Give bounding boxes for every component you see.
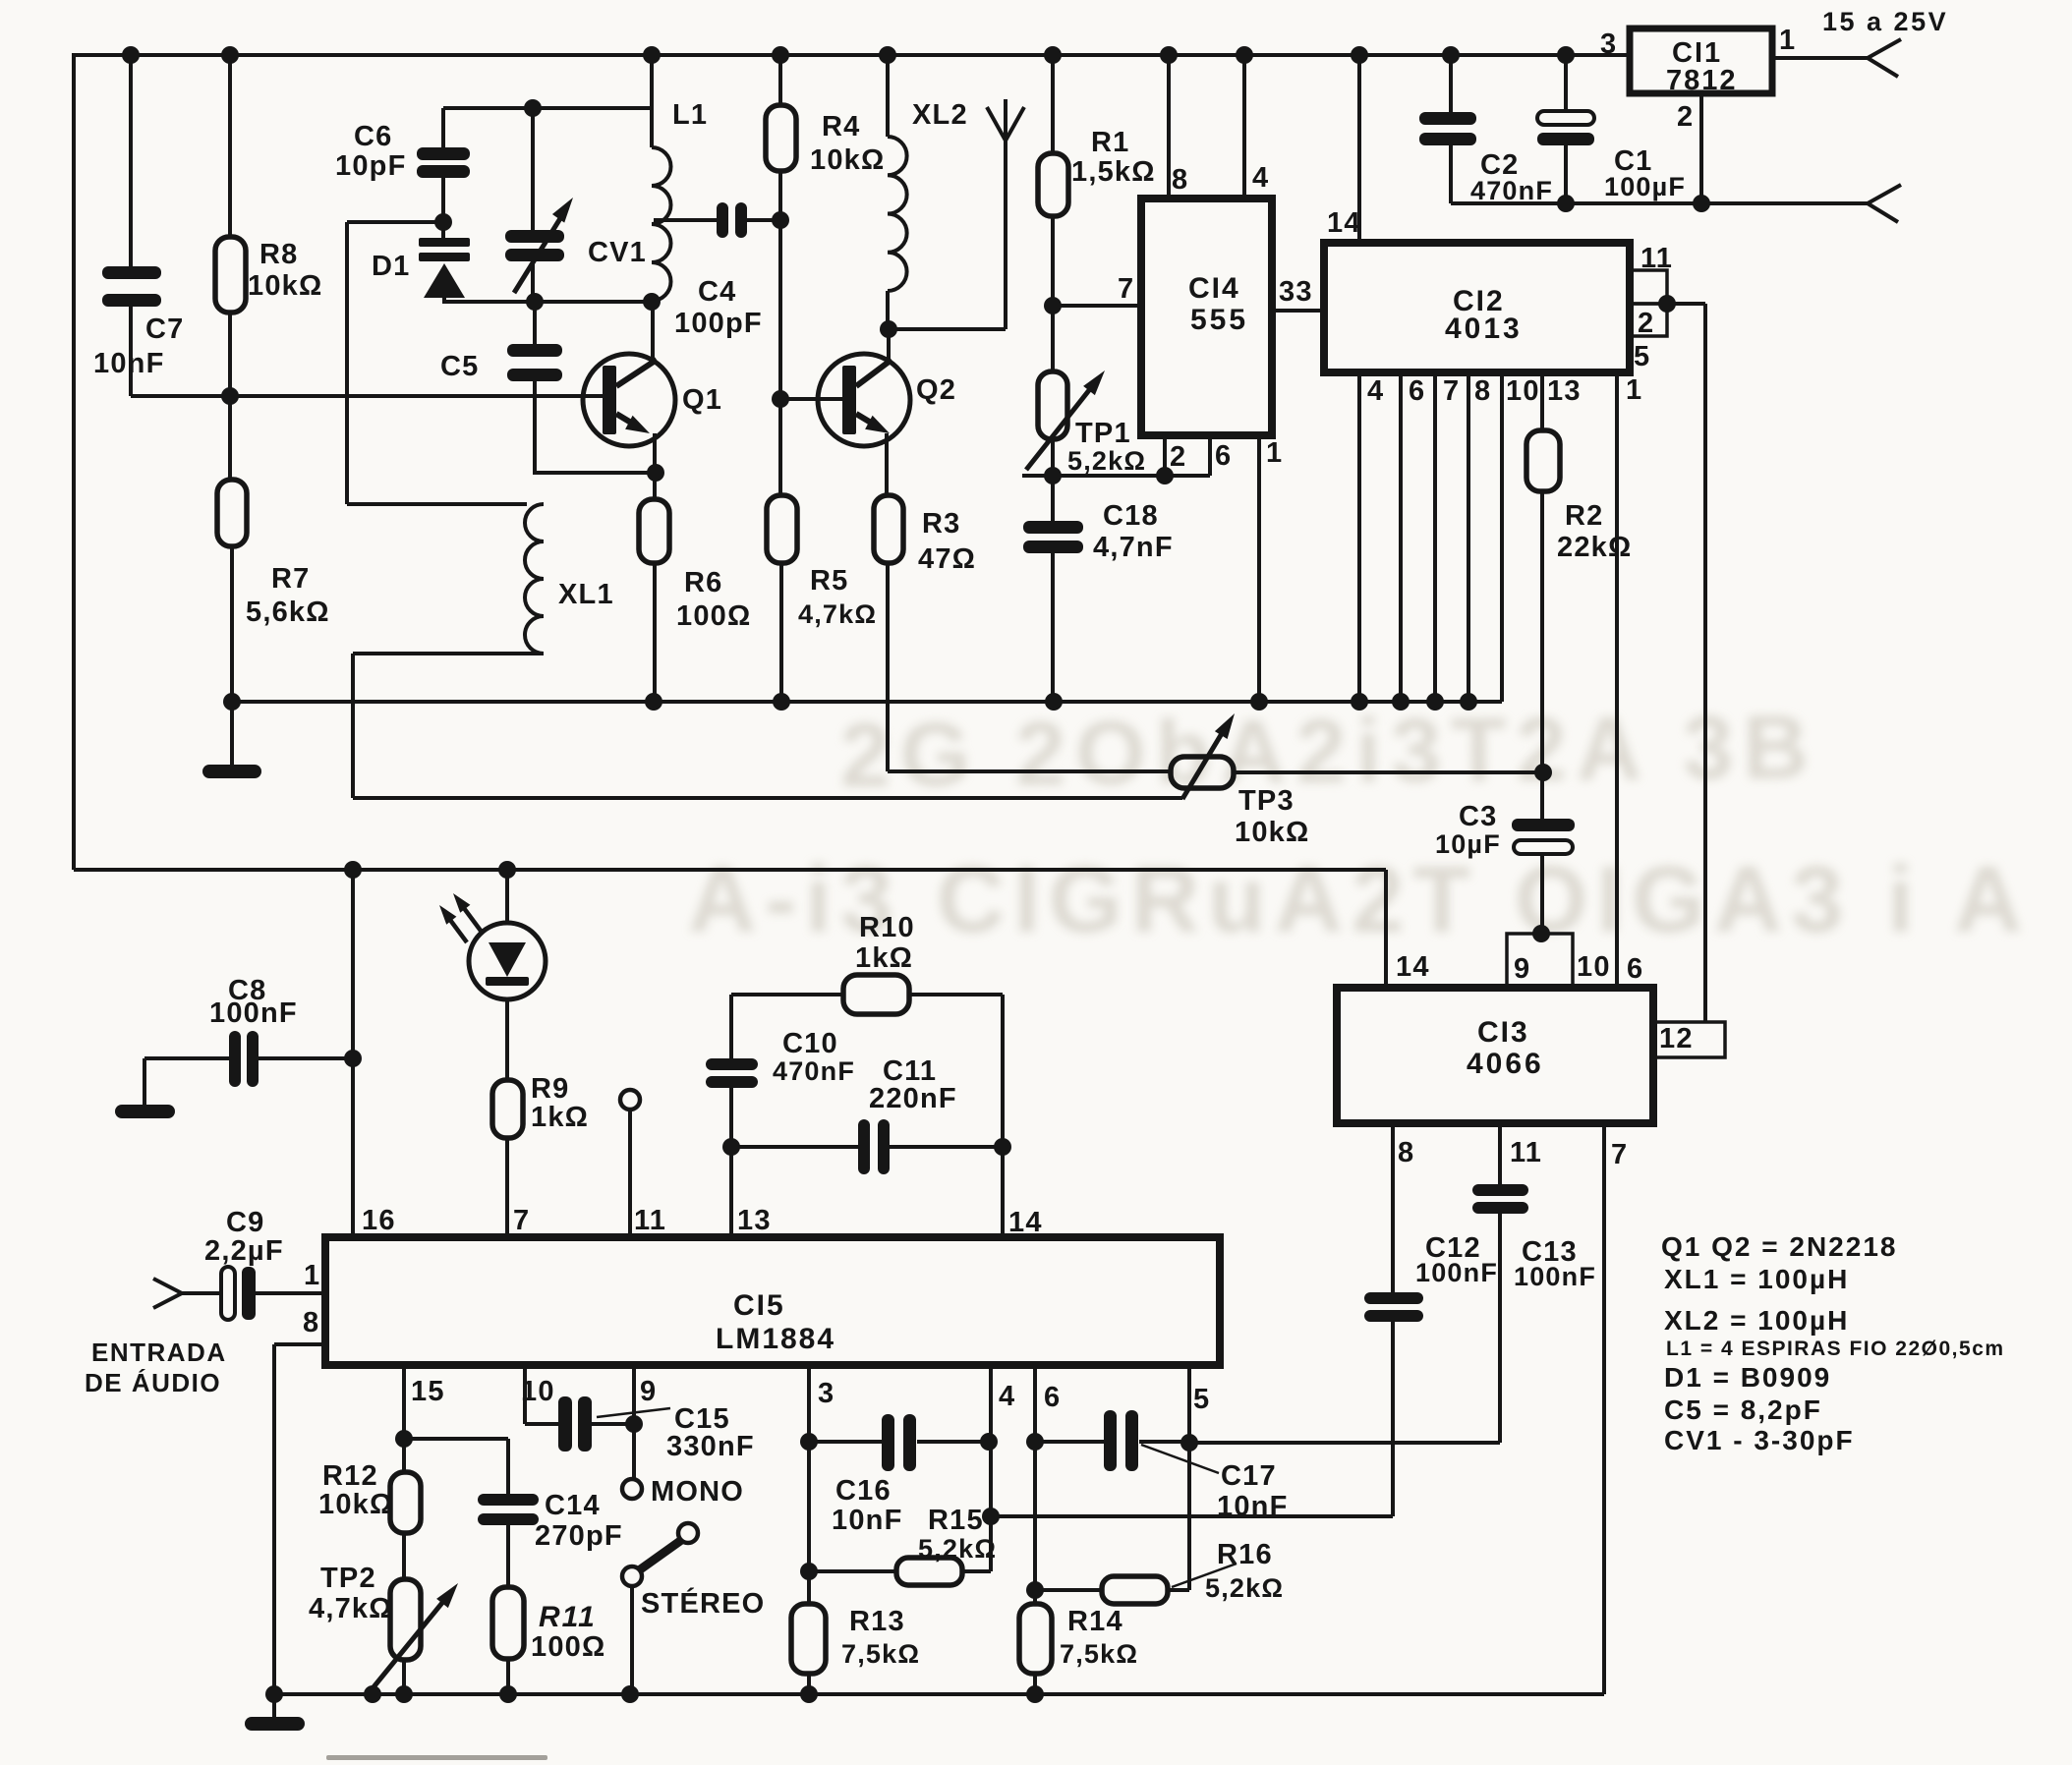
svg-text:R6: R6 [684,567,722,598]
svg-text:6: 6 [1215,440,1232,472]
svg-text:TP1: TP1 [1075,418,1131,449]
svg-text:5,2kΩ: 5,2kΩ [918,1534,997,1564]
svg-text:7: 7 [1443,375,1460,407]
svg-text:15 a 25V: 15 a 25V [1822,7,1948,36]
svg-text:R5: R5 [810,565,848,597]
svg-text:8: 8 [1398,1137,1414,1168]
svg-text:6: 6 [1044,1382,1061,1413]
svg-text:LM1884: LM1884 [716,1323,835,1355]
svg-text:10: 10 [1577,951,1611,983]
svg-text:100pF: 100pF [674,308,763,339]
svg-text:TP3: TP3 [1238,785,1295,817]
svg-text:R10: R10 [859,912,915,943]
svg-text:4013: 4013 [1445,313,1523,345]
svg-text:C3: C3 [1459,801,1497,832]
svg-text:100nF: 100nF [1415,1258,1498,1287]
svg-text:3: 3 [818,1378,835,1409]
svg-text:10nF: 10nF [93,348,165,379]
svg-text:CV1: CV1 [588,237,647,268]
svg-text:1,5kΩ: 1,5kΩ [1071,156,1156,188]
svg-text:12: 12 [1659,1023,1694,1054]
svg-text:R14: R14 [1067,1606,1123,1637]
svg-text:10pF: 10pF [335,150,407,182]
svg-text:100nF: 100nF [1514,1262,1596,1291]
svg-text:Q2: Q2 [916,374,956,406]
svg-text:1: 1 [1266,437,1283,469]
svg-text:4: 4 [1252,162,1269,194]
svg-text:10µF: 10µF [1435,829,1501,859]
svg-text:4,7kΩ: 4,7kΩ [798,599,877,629]
svg-text:3: 3 [1600,28,1617,60]
svg-text:MONO: MONO [651,1476,744,1508]
svg-text:7812: 7812 [1666,65,1738,96]
svg-text:C17: C17 [1221,1460,1277,1492]
svg-text:10nF: 10nF [1217,1491,1289,1522]
svg-text:5,6kΩ: 5,6kΩ [246,597,330,628]
svg-text:15: 15 [411,1376,445,1407]
svg-text:R4: R4 [822,111,860,142]
svg-text:R11: R11 [539,1601,597,1633]
svg-text:6: 6 [1409,375,1425,407]
svg-text:10kΩ: 10kΩ [1235,817,1309,848]
svg-text:D1: D1 [372,251,410,282]
svg-text:C14: C14 [545,1490,601,1521]
svg-text:2G 2ObA2i3T2A 3B: 2G 2ObA2i3T2A 3B [839,697,1818,806]
svg-text:11: 11 [634,1205,666,1236]
svg-text:1kΩ: 1kΩ [855,942,913,974]
svg-text:R15: R15 [928,1505,984,1536]
svg-text:DE ÁUDIO: DE ÁUDIO [85,1368,221,1397]
svg-text:270pF: 270pF [535,1520,623,1552]
svg-text:10kΩ: 10kΩ [248,270,322,302]
svg-text:CI5: CI5 [733,1289,785,1322]
svg-text:13: 13 [1547,375,1582,407]
svg-text:6: 6 [1627,953,1643,985]
svg-text:ENTRADA: ENTRADA [91,1338,227,1367]
svg-text:14: 14 [1008,1207,1043,1238]
svg-text:14: 14 [1396,951,1430,983]
svg-text:C18: C18 [1103,500,1159,532]
svg-text:11: 11 [1640,243,1673,274]
svg-text:2,2µF: 2,2µF [204,1235,284,1267]
svg-text:1kΩ: 1kΩ [531,1102,589,1133]
svg-text:10kΩ: 10kΩ [810,144,885,176]
svg-text:7: 7 [1611,1139,1628,1170]
svg-text:14: 14 [1327,207,1361,239]
svg-text:33: 33 [1279,276,1313,308]
svg-text:L1 = 4 ESPIRAS FIO 22Ø0,5cm: L1 = 4 ESPIRAS FIO 22Ø0,5cm [1666,1338,2005,1360]
svg-text:5,2kΩ: 5,2kΩ [1205,1573,1284,1603]
svg-text:8: 8 [303,1307,319,1338]
svg-text:13: 13 [737,1205,772,1236]
svg-text:100nF: 100nF [209,997,298,1029]
svg-text:2: 2 [1170,441,1186,473]
svg-text:C4: C4 [698,276,736,308]
svg-text:R12: R12 [322,1460,378,1492]
svg-text:C6: C6 [354,121,392,152]
svg-text:9: 9 [640,1376,657,1407]
svg-text:7: 7 [513,1205,530,1236]
svg-text:Q1 Q2 = 2N2218: Q1 Q2 = 2N2218 [1661,1231,1897,1262]
svg-text:4: 4 [999,1381,1015,1412]
svg-text:CV1 - 3-30pF: CV1 - 3-30pF [1664,1425,1855,1455]
svg-text:4: 4 [1367,375,1384,407]
svg-text:7,5kΩ: 7,5kΩ [841,1639,920,1669]
svg-text:Q1: Q1 [682,384,722,416]
svg-text:5: 5 [1634,341,1650,372]
svg-text:100µF: 100µF [1604,172,1686,201]
svg-text:STÉREO: STÉREO [641,1586,765,1620]
svg-text:TP2: TP2 [320,1563,376,1594]
svg-text:100Ω: 100Ω [676,600,751,632]
svg-text:C10: C10 [782,1028,838,1059]
svg-text:C7: C7 [145,313,184,345]
svg-text:C5 = 8,2pF: C5 = 8,2pF [1664,1395,1822,1425]
svg-text:7: 7 [1118,273,1134,305]
svg-text:9: 9 [1514,953,1530,985]
svg-text:R16: R16 [1217,1539,1273,1570]
svg-text:330nF: 330nF [666,1431,755,1462]
svg-text:4066: 4066 [1467,1048,1544,1080]
svg-text:C9: C9 [226,1207,264,1238]
svg-text:220nF: 220nF [869,1083,957,1114]
svg-text:11: 11 [1510,1137,1542,1168]
svg-text:10: 10 [1506,375,1540,407]
svg-text:7,5kΩ: 7,5kΩ [1060,1639,1138,1669]
svg-text:470nF: 470nF [1470,176,1553,205]
svg-text:8: 8 [1474,375,1491,407]
svg-text:R13: R13 [849,1606,905,1637]
svg-text:10: 10 [521,1376,555,1407]
svg-text:5: 5 [1193,1384,1210,1415]
svg-text:1: 1 [1779,25,1796,56]
svg-text:1: 1 [304,1260,320,1291]
svg-text:R3: R3 [922,508,960,540]
svg-text:16: 16 [362,1205,396,1236]
svg-text:CI3: CI3 [1477,1016,1529,1049]
svg-text:XL2 = 100µH: XL2 = 100µH [1664,1305,1849,1336]
svg-text:47Ω: 47Ω [918,543,976,575]
svg-text:1: 1 [1626,374,1642,406]
svg-text:R8: R8 [259,239,298,270]
svg-text:R9: R9 [531,1073,569,1105]
svg-text:D1 = B0909: D1 = B0909 [1664,1362,1831,1393]
svg-text:100Ω: 100Ω [531,1631,605,1663]
svg-text:8: 8 [1172,164,1188,196]
svg-text:XL1: XL1 [558,579,614,610]
svg-text:R2: R2 [1565,500,1603,532]
svg-text:4,7nF: 4,7nF [1093,532,1174,563]
svg-text:5,2kΩ: 5,2kΩ [1067,446,1146,476]
svg-text:555: 555 [1190,304,1248,336]
svg-text:2: 2 [1677,101,1694,133]
svg-text:XL2: XL2 [912,99,968,131]
svg-text:C5: C5 [440,351,479,382]
svg-text:XL1 = 100µH: XL1 = 100µH [1664,1264,1849,1294]
svg-text:2: 2 [1638,308,1654,339]
svg-text:470nF: 470nF [773,1056,855,1086]
svg-text:22kΩ: 22kΩ [1557,532,1632,563]
svg-text:10kΩ: 10kΩ [318,1489,393,1520]
svg-text:4,7kΩ: 4,7kΩ [309,1593,393,1624]
svg-text:10nF: 10nF [832,1505,903,1536]
svg-text:R7: R7 [271,563,310,595]
svg-text:C16: C16 [835,1475,892,1507]
svg-text:CI4: CI4 [1188,272,1240,305]
svg-text:L1: L1 [672,99,708,131]
svg-text:R1: R1 [1091,127,1129,158]
